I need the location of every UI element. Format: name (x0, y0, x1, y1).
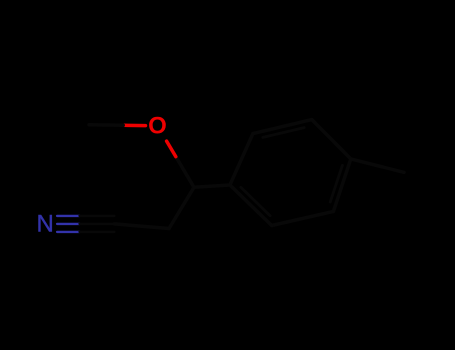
svg-text:N: N (37, 210, 54, 237)
wire: benzene ring edge left (230, 134, 253, 185)
wire: bond C2-C3 (169, 187, 194, 228)
wire: C#N triple bond lower line, N-side half (blue) (57, 231, 79, 233)
wire: ring double bond inner line, top edge (263, 128, 304, 138)
wire: ring double bond inner line, right-lower edge (330, 165, 342, 202)
wire: C#N triple bond lower line, C-side half (80, 231, 115, 233)
wire: bond ring-CH3 (para methyl) (351, 159, 404, 172)
wire: C#N triple bond middle line, N-side half (blue) (57, 223, 79, 225)
wire: bond C3-O, O-side half (red) (167, 141, 176, 157)
wire: benzene ring edge bottom (272, 211, 334, 225)
wire: C#N triple bond upper line, N-side half (blue) (57, 215, 79, 217)
wire: C#N triple bond upper line, C-side half (80, 215, 115, 217)
wire: bond O-CH3, CH3-side half (89, 123, 123, 127)
wire: bond C3-O, C3-side half (176, 157, 194, 188)
wire: bond O-CH3, O-side half (red) (123, 124, 145, 128)
wire: benzene ring edge top (253, 120, 312, 134)
svg-text:O: O (148, 113, 167, 140)
wire: benzene ring edge right-lower (333, 159, 350, 212)
wire: bond C1-C2 (114, 224, 169, 229)
wire: bond C3-ring (194, 185, 230, 187)
wire: benzene ring edge lower-left (230, 185, 272, 226)
wire: ring double bond inner line, lower-left edge (241, 187, 270, 215)
wire: benzene ring edge upper-right (312, 120, 351, 159)
wire: C#N triple bond middle line, C-side half (80, 223, 115, 225)
